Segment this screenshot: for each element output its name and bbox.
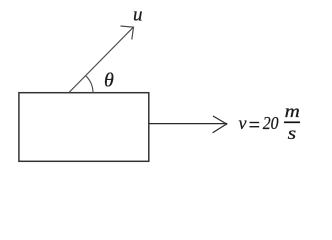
svg-text:v: v bbox=[239, 113, 247, 133]
svg-text:m: m bbox=[285, 102, 300, 121]
equals sign bottom bar bbox=[250, 126, 260, 128]
svg-text:20: 20 bbox=[263, 113, 279, 133]
svg-text:u: u bbox=[133, 5, 143, 26]
wire vector u shaft bbox=[69, 28, 133, 93]
equals sign top bar bbox=[250, 122, 260, 124]
wire vector v shaft bbox=[149, 123, 227, 125]
tip dot of v arrow bbox=[225, 123, 227, 125]
svg-text:s: s bbox=[288, 124, 297, 144]
arrowhead of u bbox=[121, 26, 134, 40]
fraction bar bbox=[284, 121, 300, 123]
rectangle block bbox=[19, 93, 149, 162]
svg-text:θ: θ bbox=[104, 70, 114, 92]
angle arc bbox=[86, 76, 93, 93]
arrowhead of v bbox=[213, 116, 227, 133]
